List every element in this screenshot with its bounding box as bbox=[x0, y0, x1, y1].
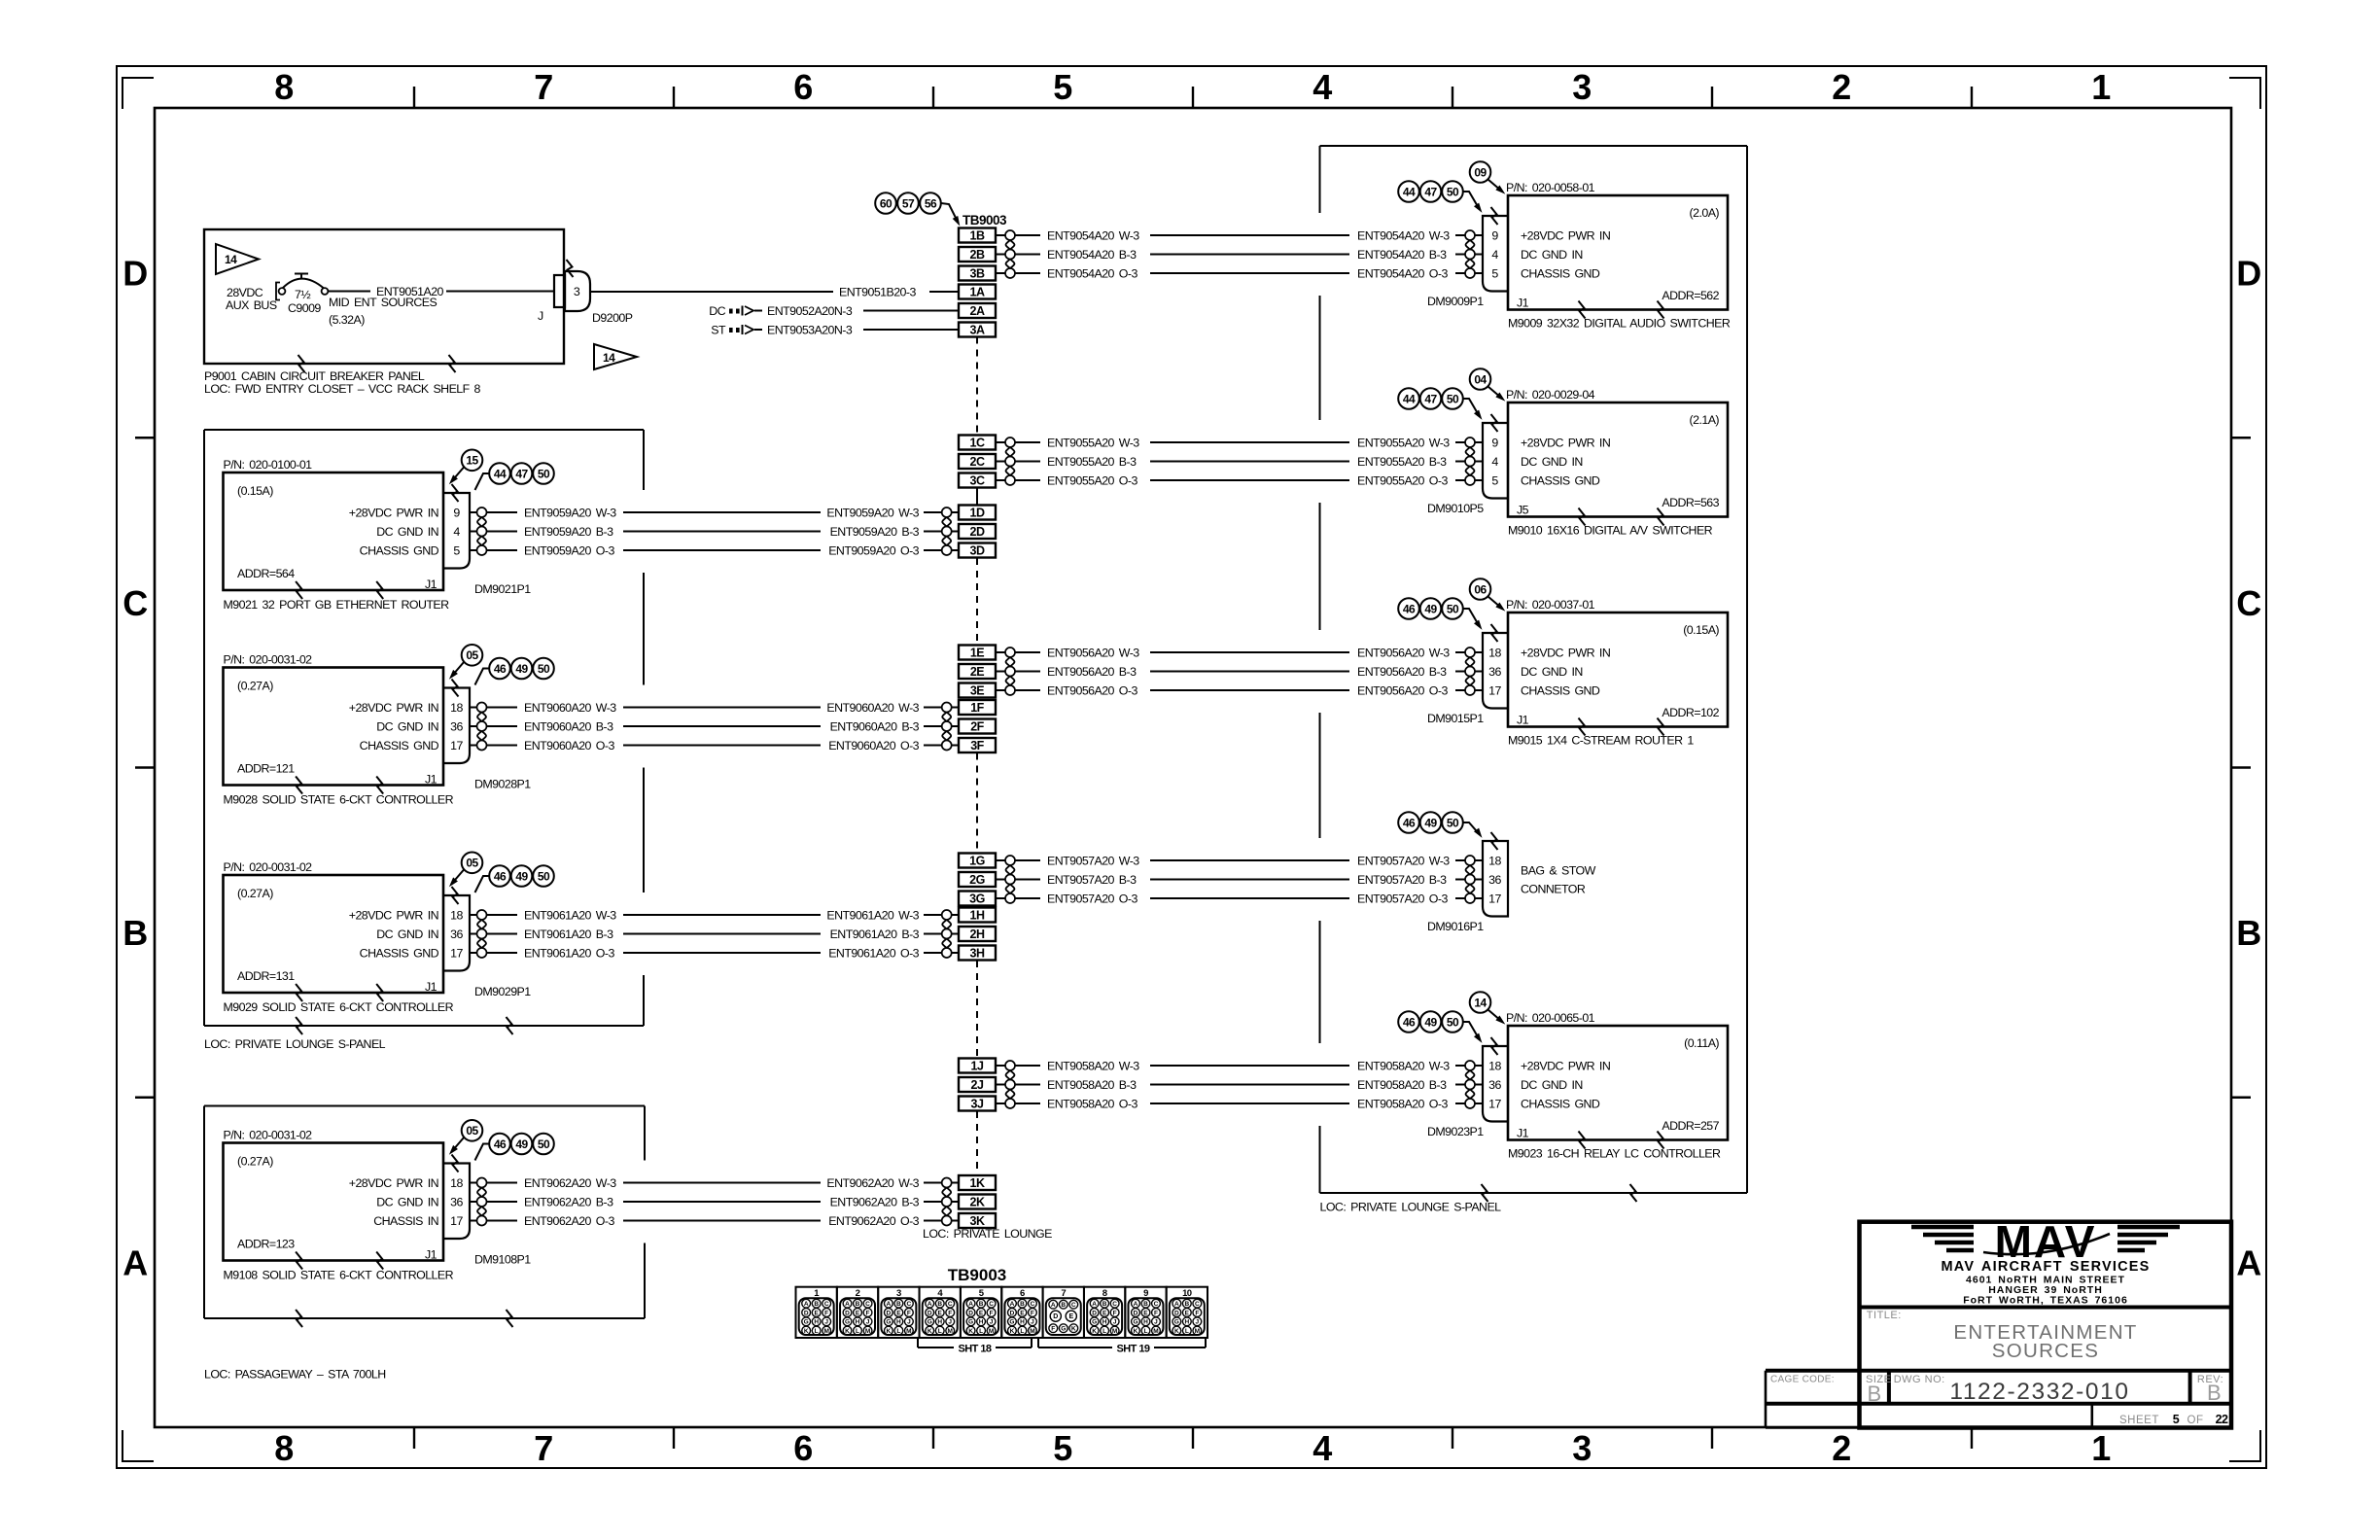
svg-text:B: B bbox=[979, 1301, 984, 1308]
svg-text:G: G bbox=[968, 1319, 973, 1326]
svg-text:E: E bbox=[979, 1310, 984, 1316]
svg-text:B: B bbox=[2236, 913, 2260, 953]
svg-text:M9015 1X4 C-STREAM ROUTER 1: M9015 1X4 C-STREAM ROUTER 1 bbox=[1508, 734, 1694, 748]
svg-text:2D: 2D bbox=[970, 525, 985, 539]
svg-text:F: F bbox=[824, 1310, 828, 1316]
svg-text:4: 4 bbox=[453, 525, 460, 539]
svg-text:M: M bbox=[823, 1328, 828, 1335]
svg-text:L: L bbox=[1185, 1328, 1189, 1335]
svg-text:A: A bbox=[845, 1301, 850, 1308]
svg-text:5: 5 bbox=[1053, 67, 1072, 107]
svg-text:H: H bbox=[1020, 1319, 1025, 1326]
svg-text:05: 05 bbox=[466, 1124, 478, 1137]
svg-text:ENT9060A20 O-3: ENT9060A20 O-3 bbox=[524, 739, 614, 752]
svg-text:B: B bbox=[1867, 1382, 1880, 1406]
svg-text:D: D bbox=[2236, 254, 2260, 294]
svg-text:B: B bbox=[122, 913, 147, 953]
svg-text:ENT9062A20 W-3: ENT9062A20 W-3 bbox=[826, 1176, 919, 1190]
svg-text:DC GND IN: DC GND IN bbox=[376, 1196, 438, 1209]
svg-text:36: 36 bbox=[1488, 1078, 1501, 1092]
svg-text:G: G bbox=[845, 1319, 850, 1326]
svg-text:C: C bbox=[948, 1301, 953, 1308]
svg-text:ENT9058A20 B-3: ENT9058A20 B-3 bbox=[1047, 1078, 1137, 1092]
svg-text:ADDR=257: ADDR=257 bbox=[1662, 1119, 1719, 1133]
svg-text:C: C bbox=[989, 1301, 994, 1308]
svg-text:18: 18 bbox=[1488, 1060, 1501, 1073]
svg-text:ENT9057A20 W-3: ENT9057A20 W-3 bbox=[1357, 855, 1450, 868]
svg-text:CONNETOR: CONNETOR bbox=[1521, 883, 1586, 896]
svg-text:4: 4 bbox=[1312, 1428, 1332, 1468]
svg-text:ENT9060A20 W-3: ENT9060A20 W-3 bbox=[524, 701, 616, 715]
svg-text:E: E bbox=[815, 1310, 820, 1316]
svg-text:47: 47 bbox=[1424, 185, 1437, 198]
svg-text:B: B bbox=[1061, 1302, 1066, 1309]
svg-text:36: 36 bbox=[1488, 665, 1501, 679]
svg-text:1: 1 bbox=[2091, 1428, 2111, 1468]
svg-text:M: M bbox=[1030, 1328, 1034, 1335]
svg-text:(5.32A): (5.32A) bbox=[329, 313, 365, 327]
svg-text:H: H bbox=[856, 1319, 860, 1326]
svg-text:ENT9061A20 O-3: ENT9061A20 O-3 bbox=[524, 947, 614, 961]
svg-text:3H: 3H bbox=[970, 947, 985, 961]
svg-text:M: M bbox=[1112, 1328, 1117, 1335]
svg-text:DC GND IN: DC GND IN bbox=[1521, 248, 1583, 262]
svg-text:E: E bbox=[1068, 1313, 1073, 1320]
svg-text:J: J bbox=[1031, 1319, 1034, 1326]
svg-text:3K: 3K bbox=[970, 1214, 985, 1228]
svg-text:ENT9057A20 B-3: ENT9057A20 B-3 bbox=[1047, 873, 1137, 887]
svg-text:L: L bbox=[1143, 1328, 1147, 1335]
svg-text:50: 50 bbox=[538, 869, 550, 883]
svg-text:B: B bbox=[1020, 1301, 1025, 1308]
svg-text:M: M bbox=[1195, 1328, 1200, 1335]
svg-text:C: C bbox=[1031, 1301, 1035, 1308]
svg-text:DM9010P5: DM9010P5 bbox=[1427, 502, 1484, 515]
svg-text:ENT9054A20 W-3: ENT9054A20 W-3 bbox=[1357, 229, 1450, 243]
svg-text:ENT9059A20 O-3: ENT9059A20 O-3 bbox=[828, 544, 919, 558]
svg-text:50: 50 bbox=[1447, 185, 1459, 198]
svg-text:M9029 SOLID STATE 6-CKT CONTRO: M9029 SOLID STATE 6-CKT CONTROLLER bbox=[224, 1000, 454, 1014]
svg-text:C: C bbox=[1112, 1301, 1117, 1308]
svg-text:TB9003: TB9003 bbox=[948, 1266, 1006, 1284]
svg-text:K: K bbox=[1071, 1326, 1076, 1333]
svg-text:K: K bbox=[1092, 1328, 1097, 1335]
svg-text:46: 46 bbox=[494, 869, 507, 883]
svg-text:(0.15A): (0.15A) bbox=[237, 484, 273, 498]
svg-text:P/N: 020-0058-01: P/N: 020-0058-01 bbox=[1506, 181, 1595, 194]
svg-text:36: 36 bbox=[1488, 873, 1501, 887]
svg-text:J1: J1 bbox=[1517, 1127, 1529, 1140]
svg-text:18: 18 bbox=[450, 1176, 463, 1190]
svg-text:(0.15A): (0.15A) bbox=[1683, 623, 1719, 637]
svg-text:ENT9055A20 O-3: ENT9055A20 O-3 bbox=[1357, 474, 1448, 488]
svg-text:CHASSIS GND: CHASSIS GND bbox=[360, 739, 439, 752]
svg-text:P/N: 020-0100-01: P/N: 020-0100-01 bbox=[224, 458, 313, 472]
svg-text:09: 09 bbox=[1474, 165, 1487, 179]
svg-text:5: 5 bbox=[453, 544, 460, 558]
svg-text:E: E bbox=[1020, 1310, 1025, 1316]
svg-text:ADDR=562: ADDR=562 bbox=[1662, 289, 1719, 302]
svg-text:A: A bbox=[887, 1301, 892, 1308]
svg-text:(0.11A): (0.11A) bbox=[1684, 1036, 1719, 1050]
svg-text:ENT9058A20 W-3: ENT9058A20 W-3 bbox=[1357, 1060, 1450, 1073]
svg-text:DM9015P1: DM9015P1 bbox=[1427, 712, 1484, 725]
svg-text:ENT9056A20 W-3: ENT9056A20 W-3 bbox=[1357, 647, 1450, 660]
svg-text:K: K bbox=[1010, 1328, 1015, 1335]
svg-text:K: K bbox=[1174, 1328, 1179, 1335]
svg-text:(0.27A): (0.27A) bbox=[237, 680, 273, 693]
svg-text:M9028 SOLID STATE 6-CKT CONTRO: M9028 SOLID STATE 6-CKT CONTROLLER bbox=[224, 793, 454, 807]
svg-text:DM9108P1: DM9108P1 bbox=[474, 1253, 531, 1267]
svg-text:44: 44 bbox=[1403, 185, 1416, 198]
svg-text:7: 7 bbox=[534, 1428, 552, 1468]
svg-text:49: 49 bbox=[1424, 816, 1437, 829]
svg-text:B: B bbox=[1184, 1301, 1189, 1308]
svg-text:K: K bbox=[927, 1328, 932, 1335]
svg-text:ENT9062A20 W-3: ENT9062A20 W-3 bbox=[524, 1176, 616, 1190]
svg-text:(0.27A): (0.27A) bbox=[237, 887, 273, 900]
svg-text:P/N: 020-0031-02: P/N: 020-0031-02 bbox=[224, 860, 313, 874]
svg-text:ENT9059A20 B-3: ENT9059A20 B-3 bbox=[830, 525, 920, 539]
svg-text:J: J bbox=[1113, 1319, 1117, 1326]
svg-text:D: D bbox=[1053, 1313, 1058, 1320]
svg-text:9: 9 bbox=[1491, 229, 1498, 243]
svg-text:C: C bbox=[1071, 1302, 1076, 1309]
svg-text:49: 49 bbox=[1424, 602, 1437, 615]
svg-text:36: 36 bbox=[450, 1196, 463, 1209]
svg-text:DM9029P1: DM9029P1 bbox=[474, 985, 531, 998]
svg-text:J: J bbox=[1154, 1319, 1158, 1326]
svg-text:B: B bbox=[2207, 1381, 2221, 1405]
svg-text:ENT9059A20 W-3: ENT9059A20 W-3 bbox=[826, 507, 919, 520]
svg-text:3B: 3B bbox=[970, 267, 985, 281]
svg-text:05: 05 bbox=[466, 648, 478, 662]
svg-text:ENT9052A20N-3: ENT9052A20N-3 bbox=[767, 304, 853, 318]
svg-text:DC GND IN: DC GND IN bbox=[376, 525, 438, 539]
svg-text:H: H bbox=[979, 1319, 984, 1326]
svg-text:B: B bbox=[1102, 1301, 1107, 1308]
svg-text:P/N: 020-0031-02: P/N: 020-0031-02 bbox=[224, 1129, 313, 1142]
svg-text:LOC: PRIVATE LOUNGE S-PANEL: LOC: PRIVATE LOUNGE S-PANEL bbox=[1320, 1201, 1502, 1214]
svg-text:ENT9055A20 W-3: ENT9055A20 W-3 bbox=[1047, 437, 1139, 450]
svg-text:36: 36 bbox=[450, 927, 463, 941]
svg-text:J1: J1 bbox=[1517, 714, 1529, 727]
svg-text:CHASSIS GND: CHASSIS GND bbox=[1521, 267, 1600, 281]
svg-text:50: 50 bbox=[1447, 1015, 1459, 1029]
svg-text:3: 3 bbox=[1572, 67, 1591, 107]
svg-text:DC GND IN: DC GND IN bbox=[1521, 1078, 1583, 1092]
svg-text:7½: 7½ bbox=[295, 288, 310, 301]
svg-text:14: 14 bbox=[603, 351, 615, 365]
svg-text:H: H bbox=[937, 1319, 942, 1326]
svg-text:3J: 3J bbox=[971, 1098, 984, 1111]
svg-text:M9010 16X16 DIGITAL A/V SWITCH: M9010 16X16 DIGITAL A/V SWITCHER bbox=[1508, 524, 1713, 538]
svg-text:49: 49 bbox=[515, 869, 528, 883]
svg-text:C: C bbox=[865, 1301, 870, 1308]
svg-text:MAV AIRCRAFT SERVICES: MAV AIRCRAFT SERVICES bbox=[1941, 1259, 2150, 1275]
svg-text:22: 22 bbox=[2216, 1413, 2228, 1426]
svg-text:ENT9058A20 O-3: ENT9058A20 O-3 bbox=[1357, 1098, 1448, 1111]
svg-text:J1: J1 bbox=[425, 1248, 437, 1262]
svg-text:E: E bbox=[1143, 1310, 1148, 1316]
svg-text:47: 47 bbox=[515, 467, 528, 480]
svg-text:ENT9055A20 O-3: ENT9055A20 O-3 bbox=[1047, 474, 1137, 488]
svg-text:3G: 3G bbox=[969, 892, 985, 906]
svg-text:G: G bbox=[886, 1319, 891, 1326]
svg-text:3D: 3D bbox=[970, 544, 985, 558]
svg-text:06: 06 bbox=[1474, 582, 1487, 596]
svg-text:D: D bbox=[968, 1310, 973, 1316]
svg-text:LOC: PRIVATE LOUNGE: LOC: PRIVATE LOUNGE bbox=[923, 1227, 1052, 1241]
svg-text:9: 9 bbox=[1491, 437, 1498, 450]
svg-text:J: J bbox=[824, 1319, 828, 1326]
svg-text:50: 50 bbox=[538, 662, 550, 676]
svg-text:J: J bbox=[990, 1319, 994, 1326]
svg-text:M: M bbox=[865, 1328, 870, 1335]
svg-text:H: H bbox=[814, 1319, 819, 1326]
svg-text:ENT9054A20 B-3: ENT9054A20 B-3 bbox=[1357, 248, 1447, 262]
svg-text:P9001 CABIN CIRCUIT BREAKER PA: P9001 CABIN CIRCUIT BREAKER PANEL bbox=[204, 369, 425, 383]
svg-text:DC GND IN: DC GND IN bbox=[376, 720, 438, 734]
svg-text:ENT9060A20 B-3: ENT9060A20 B-3 bbox=[524, 720, 613, 734]
svg-text:(2.0A): (2.0A) bbox=[1690, 206, 1720, 220]
svg-text:G: G bbox=[1092, 1319, 1097, 1326]
svg-text:D: D bbox=[927, 1310, 932, 1316]
svg-text:2: 2 bbox=[1832, 1428, 1850, 1468]
svg-text:47: 47 bbox=[1424, 392, 1437, 405]
svg-text:+28VDC PWR IN: +28VDC PWR IN bbox=[1521, 229, 1610, 243]
svg-text:46: 46 bbox=[1403, 1015, 1416, 1029]
svg-text:J1: J1 bbox=[425, 980, 437, 994]
svg-text:L: L bbox=[896, 1328, 900, 1335]
svg-text:H: H bbox=[1102, 1319, 1107, 1326]
svg-text:P/N: 020-0031-02: P/N: 020-0031-02 bbox=[224, 653, 313, 667]
svg-text:DM9021P1: DM9021P1 bbox=[474, 582, 531, 596]
svg-text:LOC: FWD ENTRY CLOSET – VCC RA: LOC: FWD ENTRY CLOSET – VCC RACK SHELF 8 bbox=[204, 382, 481, 396]
svg-text:ENT9062A20 B-3: ENT9062A20 B-3 bbox=[524, 1196, 613, 1209]
svg-text:ENT9061A20 W-3: ENT9061A20 W-3 bbox=[826, 909, 919, 923]
svg-text:04: 04 bbox=[1474, 372, 1487, 386]
svg-text:E: E bbox=[938, 1310, 943, 1316]
svg-text:1A: 1A bbox=[970, 286, 985, 299]
svg-text:M9023 16-CH RELAY LC CONTROLLE: M9023 16-CH RELAY LC CONTROLLER bbox=[1508, 1147, 1721, 1161]
svg-text:SOURCES: SOURCES bbox=[1992, 1340, 2099, 1362]
svg-text:G: G bbox=[1009, 1319, 1014, 1326]
svg-text:ENT9058A20 W-3: ENT9058A20 W-3 bbox=[1047, 1060, 1139, 1073]
svg-text:5: 5 bbox=[1491, 474, 1498, 488]
svg-text:E: E bbox=[856, 1310, 860, 1316]
svg-text:3A: 3A bbox=[970, 324, 985, 337]
svg-text:+28VDC PWR IN: +28VDC PWR IN bbox=[349, 909, 438, 923]
svg-text:18: 18 bbox=[1488, 647, 1501, 660]
svg-text:CHASSIS IN: CHASSIS IN bbox=[373, 1214, 438, 1228]
svg-text:M: M bbox=[1153, 1328, 1158, 1335]
svg-text:ST: ST bbox=[711, 324, 726, 337]
svg-text:DM9009P1: DM9009P1 bbox=[1427, 295, 1484, 308]
svg-text:05: 05 bbox=[466, 857, 478, 870]
svg-text:ENT9054A20 O-3: ENT9054A20 O-3 bbox=[1357, 267, 1448, 281]
svg-text:14: 14 bbox=[225, 253, 237, 266]
svg-text:AUX BUS: AUX BUS bbox=[226, 298, 277, 312]
svg-text:49: 49 bbox=[515, 662, 528, 676]
svg-text:K: K bbox=[968, 1328, 973, 1335]
svg-text:18: 18 bbox=[1488, 855, 1501, 868]
svg-text:ADDR=121: ADDR=121 bbox=[237, 762, 295, 776]
svg-text:50: 50 bbox=[1447, 816, 1459, 829]
svg-text:3: 3 bbox=[1572, 1428, 1591, 1468]
svg-text:A: A bbox=[1010, 1301, 1015, 1308]
svg-text:ENT9061A20 B-3: ENT9061A20 B-3 bbox=[830, 927, 920, 941]
svg-text:C: C bbox=[2236, 583, 2261, 623]
svg-text:5: 5 bbox=[1491, 267, 1498, 281]
svg-text:H: H bbox=[896, 1319, 901, 1326]
svg-text:TB9003: TB9003 bbox=[962, 213, 1007, 227]
svg-text:9: 9 bbox=[453, 507, 460, 520]
svg-text:A: A bbox=[968, 1301, 973, 1308]
svg-text:ENT9054A20 B-3: ENT9054A20 B-3 bbox=[1047, 248, 1137, 262]
svg-text:G: G bbox=[1061, 1326, 1066, 1333]
svg-text:1C: 1C bbox=[970, 437, 985, 450]
svg-text:50: 50 bbox=[538, 1137, 550, 1151]
svg-text:F: F bbox=[1113, 1310, 1117, 1316]
svg-text:ENT9061A20 B-3: ENT9061A20 B-3 bbox=[524, 927, 613, 941]
svg-text:CHASSIS GND: CHASSIS GND bbox=[1521, 474, 1600, 488]
svg-text:C9009: C9009 bbox=[288, 301, 321, 315]
svg-text:CHASSIS GND: CHASSIS GND bbox=[360, 947, 439, 961]
svg-text:ENT9057A20 O-3: ENT9057A20 O-3 bbox=[1357, 892, 1448, 906]
svg-text:ENT9056A20 B-3: ENT9056A20 B-3 bbox=[1047, 665, 1137, 679]
svg-text:2F: 2F bbox=[970, 720, 984, 734]
svg-text:ENT9056A20 O-3: ENT9056A20 O-3 bbox=[1047, 684, 1137, 698]
svg-text:3E: 3E bbox=[970, 684, 984, 698]
svg-text:B: B bbox=[814, 1301, 819, 1308]
svg-text:2K: 2K bbox=[970, 1196, 985, 1209]
svg-text:60: 60 bbox=[880, 196, 892, 210]
svg-text:A: A bbox=[1134, 1301, 1138, 1308]
svg-text:ENT9059A20 W-3: ENT9059A20 W-3 bbox=[524, 507, 616, 520]
svg-text:3F: 3F bbox=[970, 739, 984, 752]
svg-text:2C: 2C bbox=[970, 455, 985, 469]
svg-text:H: H bbox=[1184, 1319, 1189, 1326]
svg-text:6: 6 bbox=[793, 1428, 812, 1468]
svg-text:K: K bbox=[1134, 1328, 1138, 1335]
svg-text:M: M bbox=[906, 1328, 911, 1335]
svg-text:ENT9062A20 B-3: ENT9062A20 B-3 bbox=[830, 1196, 920, 1209]
svg-text:M9108 SOLID STATE 6-CKT CONTRO: M9108 SOLID STATE 6-CKT CONTROLLER bbox=[224, 1269, 454, 1282]
svg-text:C: C bbox=[122, 583, 148, 623]
svg-text:K: K bbox=[804, 1328, 809, 1335]
svg-text:6: 6 bbox=[793, 67, 812, 107]
svg-text:ENT9059A20 O-3: ENT9059A20 O-3 bbox=[524, 544, 614, 558]
svg-text:C: C bbox=[1195, 1301, 1200, 1308]
svg-text:1G: 1G bbox=[969, 855, 985, 868]
svg-text:28VDC: 28VDC bbox=[227, 286, 263, 299]
svg-text:C: C bbox=[907, 1301, 912, 1308]
svg-text:2G: 2G bbox=[969, 873, 985, 887]
svg-text:F: F bbox=[1031, 1310, 1034, 1316]
svg-text:K: K bbox=[845, 1328, 850, 1335]
svg-text:D: D bbox=[1134, 1310, 1138, 1316]
svg-text:1J: 1J bbox=[971, 1060, 984, 1073]
svg-text:+28VDC PWR IN: +28VDC PWR IN bbox=[1521, 437, 1610, 450]
svg-text:M: M bbox=[989, 1328, 994, 1335]
svg-text:50: 50 bbox=[1447, 392, 1459, 405]
svg-text:TITLE:: TITLE: bbox=[1867, 1310, 1902, 1321]
svg-text:1: 1 bbox=[2091, 67, 2111, 107]
svg-text:D9200P: D9200P bbox=[592, 311, 633, 325]
svg-text:F: F bbox=[1051, 1326, 1055, 1333]
svg-text:J1: J1 bbox=[425, 773, 437, 787]
svg-text:F: F bbox=[990, 1310, 994, 1316]
svg-text:+28VDC PWR IN: +28VDC PWR IN bbox=[349, 507, 438, 520]
svg-text:LOC: PASSAGEWAY – STA 700LH: LOC: PASSAGEWAY – STA 700LH bbox=[204, 1368, 386, 1382]
svg-text:J1: J1 bbox=[1517, 297, 1529, 310]
svg-text:A: A bbox=[2236, 1242, 2261, 1282]
svg-text:A: A bbox=[804, 1301, 809, 1308]
svg-text:44: 44 bbox=[1403, 392, 1416, 405]
svg-text:ENT9062A20 O-3: ENT9062A20 O-3 bbox=[524, 1214, 614, 1228]
svg-text:2H: 2H bbox=[970, 927, 985, 941]
svg-text:K: K bbox=[887, 1328, 892, 1335]
svg-text:17: 17 bbox=[450, 1214, 463, 1228]
svg-text:G: G bbox=[1133, 1319, 1137, 1326]
svg-text:1122-2332-010: 1122-2332-010 bbox=[1949, 1379, 2129, 1405]
svg-text:ENT9056A20 W-3: ENT9056A20 W-3 bbox=[1047, 647, 1139, 660]
svg-text:BAG & STOW: BAG & STOW bbox=[1521, 864, 1596, 878]
svg-text:44: 44 bbox=[494, 467, 507, 480]
svg-text:2B: 2B bbox=[970, 248, 985, 262]
svg-text:ENT9058A20 O-3: ENT9058A20 O-3 bbox=[1047, 1098, 1137, 1111]
svg-text:FоRT WоRTH, TEXAS 76106: FоRT WоRTH, TEXAS 76106 bbox=[1963, 1295, 2128, 1307]
svg-text:SHEET: SHEET bbox=[2119, 1415, 2159, 1426]
svg-text:H: H bbox=[1143, 1319, 1148, 1326]
svg-text:A: A bbox=[122, 1242, 148, 1282]
svg-text:1F: 1F bbox=[970, 701, 984, 715]
svg-text:ENT9061A20 O-3: ENT9061A20 O-3 bbox=[828, 947, 919, 961]
svg-text:18: 18 bbox=[450, 909, 463, 923]
svg-text:A: A bbox=[927, 1301, 932, 1308]
svg-text:J: J bbox=[1196, 1319, 1200, 1326]
svg-text:7: 7 bbox=[534, 67, 552, 107]
svg-text:ENT9062A20 O-3: ENT9062A20 O-3 bbox=[828, 1214, 919, 1228]
svg-text:J: J bbox=[866, 1319, 870, 1326]
svg-text:1H: 1H bbox=[970, 909, 985, 923]
svg-text:E: E bbox=[1102, 1310, 1107, 1316]
svg-text:DWG NO:: DWG NO: bbox=[1894, 1374, 1945, 1385]
svg-text:L: L bbox=[979, 1328, 983, 1335]
svg-text:ENT9055A20 B-3: ENT9055A20 B-3 bbox=[1357, 455, 1447, 469]
svg-text:ENT9053A20N-3: ENT9053A20N-3 bbox=[767, 324, 853, 337]
svg-text:8: 8 bbox=[274, 67, 293, 107]
svg-text:D: D bbox=[1174, 1310, 1179, 1316]
svg-text:ADDR=131: ADDR=131 bbox=[237, 969, 295, 983]
svg-text:+28VDC PWR IN: +28VDC PWR IN bbox=[349, 701, 438, 715]
svg-text:DM9016P1: DM9016P1 bbox=[1427, 920, 1484, 933]
svg-text:15: 15 bbox=[466, 454, 478, 468]
svg-text:DM9028P1: DM9028P1 bbox=[474, 778, 531, 791]
svg-text:(0.27A): (0.27A) bbox=[237, 1155, 273, 1169]
svg-text:B: B bbox=[937, 1301, 942, 1308]
svg-text:17: 17 bbox=[450, 947, 463, 961]
svg-text:4: 4 bbox=[1491, 248, 1498, 262]
svg-text:17: 17 bbox=[450, 739, 463, 752]
svg-text:SHT 18: SHT 18 bbox=[959, 1344, 992, 1355]
svg-text:F: F bbox=[1195, 1310, 1199, 1316]
svg-text:DC: DC bbox=[709, 304, 725, 318]
svg-text:5: 5 bbox=[2173, 1413, 2180, 1426]
svg-text:8: 8 bbox=[274, 1428, 293, 1468]
svg-text:CHASSIS GND: CHASSIS GND bbox=[360, 544, 439, 558]
